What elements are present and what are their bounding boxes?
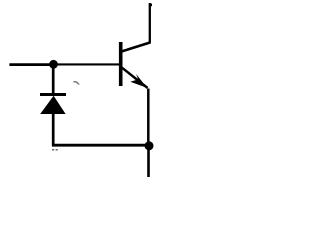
wire: vertical from diode anode down to corner: [52, 113, 55, 145]
artifact: doubled scan edge below bottom-left corner: [52, 149, 59, 151]
transistor Q1 emitter arrowhead: [130, 74, 147, 88]
transistor Q1 emitter diagonal: [122, 67, 148, 88]
diode D1 cathode bar: [40, 93, 66, 96]
diode D1 anode triangle (pointing up): [40, 96, 65, 114]
wire: left horizontal input segment: [9, 63, 53, 66]
wire: vertical from node A down to diode cathode: [52, 64, 55, 94]
node A: junction dot on base wire: [49, 60, 58, 69]
wire: tiny hook at top of collector lead: [151, 4, 153, 7]
wire: collector vertical up to top: [149, 3, 151, 44]
artifact: small gray squiggle mark: [74, 82, 80, 85]
transistor Q1 collector diagonal: [122, 43, 151, 52]
transistor Q1 base bar: [119, 42, 123, 86]
wire: emitter vertical from elbow down to node B: [147, 89, 150, 147]
wire: horizontal segment from node A to base: [54, 63, 122, 65]
wire: bottom horizontal from corner to node B: [52, 144, 149, 147]
wire: vertical below node B: [147, 146, 150, 177]
node B: junction dot at emitter/bottom wire: [145, 141, 154, 150]
